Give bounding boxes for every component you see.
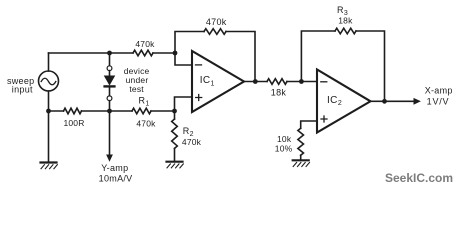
AC source (sweep generator) xyxy=(48,53,50,71)
wire: top rail from resistor to node B xyxy=(153,52,175,54)
svg-text:100R: 100R xyxy=(63,118,84,128)
ground (below 10k) xyxy=(293,159,309,161)
svg-text:470k: 470k xyxy=(136,119,156,129)
resistor R3 18k (IC2 feedback) xyxy=(335,28,356,34)
X-amp output arrow xyxy=(385,100,415,102)
diode (device under test) xyxy=(105,76,115,85)
svg-text:1V/V: 1V/V xyxy=(427,97,450,107)
wire: bottom rail from node C to 100R xyxy=(49,110,64,112)
wire: node B to IC1 inverting input xyxy=(175,53,192,65)
wire: bottom rail from R1 to node E xyxy=(151,110,175,112)
svg-text:R1: R1 xyxy=(139,95,150,107)
resistor 10k 10% (vertical) xyxy=(298,128,304,155)
Y-amp output arrow xyxy=(109,111,111,155)
svg-text:Y-amp: Y-amp xyxy=(101,163,128,173)
wire: 10k to ground xyxy=(300,155,302,159)
feedback loop wires for R3 xyxy=(301,31,335,82)
resistor 470k (IC1 feedback) xyxy=(204,29,226,35)
resistor 18k (interstage) xyxy=(267,79,287,85)
op-amp IC1 xyxy=(192,51,244,112)
svg-text:input: input xyxy=(12,84,33,94)
wire: bottom rail from 100R to node D xyxy=(82,110,133,112)
svg-text:10%: 10% xyxy=(275,144,293,154)
svg-text:470k: 470k xyxy=(182,137,202,147)
ground (below R2) xyxy=(167,161,183,163)
node A (top of device under test) xyxy=(107,51,112,56)
device under test branch: wire and terminals xyxy=(109,53,111,66)
feedback loop wires for IC1 xyxy=(175,32,204,54)
node G (IC2 inverting / R3 junction) xyxy=(299,79,304,84)
svg-text:470k: 470k xyxy=(206,17,227,27)
op-amp IC2 xyxy=(317,70,371,133)
node E (non-inverting input / R2 junction) xyxy=(172,109,177,114)
svg-text:470k: 470k xyxy=(135,39,155,49)
wire: top rail from sweep source to 470k input resistor xyxy=(49,52,134,54)
resistor 100R xyxy=(64,108,82,114)
node B (inverting input / feedback junction) xyxy=(173,51,178,56)
node C (sweep low / 100R junction) xyxy=(46,109,51,114)
resistor R1 470k xyxy=(132,108,151,114)
svg-text:test: test xyxy=(129,84,144,94)
wire: 18k to IC2 inverting input xyxy=(287,81,317,83)
wire: node C down to ground xyxy=(48,111,50,162)
svg-text:IC1: IC1 xyxy=(200,75,215,87)
svg-text:X-amp: X-amp xyxy=(425,86,453,96)
wire: R2 branch from node E down xyxy=(174,111,176,119)
resistor 470k (series input, top rail) xyxy=(133,50,153,56)
wire: R2 to ground xyxy=(174,148,176,160)
wire: IC2 output xyxy=(371,100,385,102)
svg-text:10mA/V: 10mA/V xyxy=(99,173,133,183)
svg-text:SeekIC.com: SeekIC.com xyxy=(385,171,453,185)
wire: IC1 output to 18k xyxy=(244,81,267,83)
ground (below sweep source) xyxy=(41,161,57,163)
resistor R2 470k (vertical) xyxy=(172,119,178,148)
svg-text:18k: 18k xyxy=(271,87,287,97)
node F (output / feedback junction) xyxy=(253,79,258,84)
node H (IC2 output / R3 junction) xyxy=(382,99,387,104)
svg-text:IC2: IC2 xyxy=(327,95,342,107)
svg-text:18k: 18k xyxy=(338,15,353,25)
node D (device under test bottom / Y-amp tap) xyxy=(107,109,112,114)
wire: IC2 non-inverting input to 10k xyxy=(301,121,317,128)
wire: node E to IC1 non-inverting input xyxy=(175,97,193,111)
